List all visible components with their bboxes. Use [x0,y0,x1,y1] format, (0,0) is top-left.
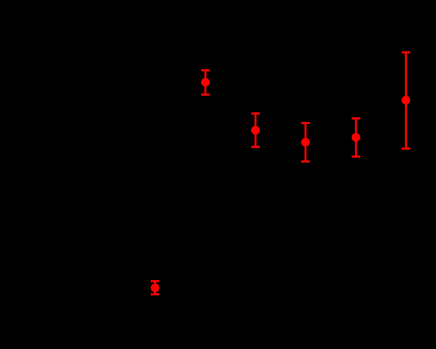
data point 5 marker [352,133,361,142]
data point 6 marker [402,96,411,105]
data point 2 error bar [201,70,210,94]
data point 4 marker [301,138,310,147]
data point 4 error bar [301,123,310,162]
data point 5 error bar [352,118,361,156]
data point 3 marker [251,126,260,135]
data point 1 error bar [151,281,160,294]
data point 3 error bar [251,114,260,147]
data point 2 marker [201,78,210,87]
data point 6 error bar [402,52,411,148]
data point 1 marker [151,283,160,292]
